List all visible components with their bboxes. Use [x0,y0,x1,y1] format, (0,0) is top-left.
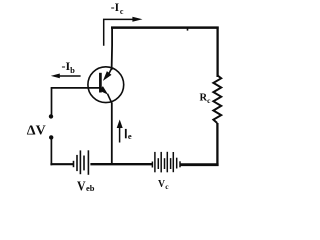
wire (top horizontal, collector to Rc) [111,26,219,29]
svg-text:ΔV: ΔV [27,123,46,138]
resistor Rc [213,76,221,124]
battery Veb [74,150,89,175]
wire (emitter lead down from transistor to bottom wire) [111,103,113,166]
wire (left vertical down to bottom wire) [50,139,52,165]
wire (left bend down from base wire) [51,87,53,115]
wire (right vertical, top wire down to resistor) [216,27,218,78]
wire (bottom left segment, dV branch to Veb) [50,163,73,165]
lower (collector) lead with arrow away from bar [99,86,108,95]
upper (emitter) lead with arrow into bar [109,68,112,74]
wire (bottom middle segment, Veb to Vc) [90,163,152,165]
wire (right vertical, resistor to bottom corner) [216,123,218,166]
current arrow -Ic (L-shaped, up then right) [104,17,143,46]
wire (bottom right segment, Vc to corner) [181,163,219,166]
transistor Q1 (point-contact style) [88,67,124,103]
wire (collector lead up from transistor to top wire) [111,27,114,71]
current arrow Ie (pointing up) [117,120,123,143]
label Ie [125,129,132,141]
svg-text:e: e [128,131,132,141]
tick on top wire [187,28,189,31]
wire (base lead, horizontal) [51,87,100,89]
node (dV upper terminal) [49,114,53,118]
base bar [99,73,102,93]
node (dV lower terminal) [49,135,53,139]
battery Vc [152,152,180,173]
current arrow -Ib (pointing left) [51,74,81,79]
